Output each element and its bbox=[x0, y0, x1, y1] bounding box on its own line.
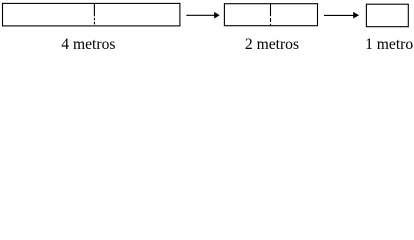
svg-text:2 metros: 2 metros bbox=[245, 36, 299, 53]
svg-text:1 metro: 1 metro bbox=[365, 36, 413, 53]
svg-text:4 metros: 4 metros bbox=[61, 36, 115, 53]
